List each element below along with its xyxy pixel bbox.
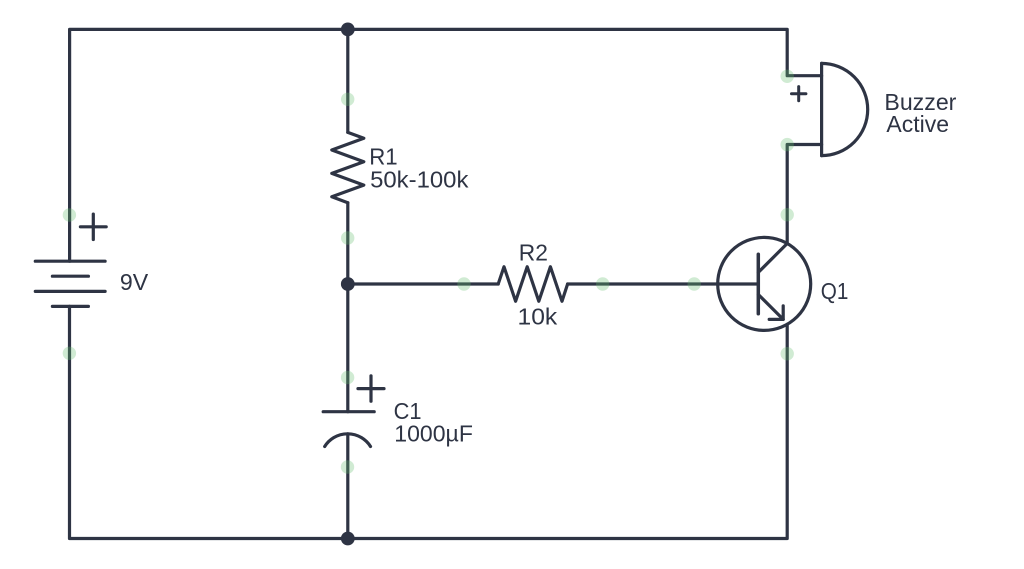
svg-text:50k-100k: 50k-100k	[370, 167, 469, 193]
terminal Q1 collector	[781, 208, 794, 221]
terminal R2 right	[596, 277, 609, 290]
svg-text:R2: R2	[519, 240, 548, 266]
resistor R1	[332, 132, 364, 202]
wire: buzzer - terminal down to Q1 collector	[787, 145, 821, 244]
terminal C1 top	[341, 371, 354, 384]
terminal C1 bottom	[341, 460, 354, 473]
junction node top	[341, 23, 355, 37]
wire: C1 bottom plate to bottom rail	[346, 434, 349, 539]
junction node mid	[341, 277, 355, 291]
battery BT1 plates	[35, 260, 105, 263]
buzzer body flat bar	[820, 63, 823, 155]
battery plus sign	[80, 225, 106, 228]
terminal buzzer +	[781, 70, 794, 83]
terminal battery +	[63, 208, 76, 221]
terminal Q1 base	[688, 277, 701, 290]
wire: mid junction to R2 left	[348, 282, 498, 285]
terminal R2 left	[457, 277, 470, 290]
capacitor plus sign	[358, 387, 384, 390]
terminal R1 bottom	[341, 231, 354, 244]
buzzer plus sign	[792, 92, 806, 95]
wire: top rail from battery + up, across, down to buzzer + terminal	[70, 29, 822, 261]
svg-text:9V: 9V	[120, 269, 149, 295]
transistor Q1 body circle	[718, 237, 811, 330]
terminal battery -	[63, 347, 76, 360]
terminal buzzer -	[781, 138, 794, 151]
wire: middle vertical top to R1	[346, 29, 349, 132]
capacitor C1 curved plate	[325, 434, 371, 447]
buzzer body dome	[822, 63, 868, 155]
capacitor C1 top plate	[323, 410, 374, 413]
svg-text:Q1: Q1	[821, 278, 849, 304]
svg-text:Active: Active	[886, 111, 949, 137]
resistor R2	[498, 267, 567, 301]
terminal R1 top	[341, 93, 354, 106]
wire: R2 right to Q1 base	[568, 282, 759, 285]
wire: R1 bottom through mid junction to C1 top plate	[346, 203, 349, 412]
svg-text:10k: 10k	[518, 304, 558, 330]
wire: battery - down, bottom rail, up right side to Q1 emitter	[70, 306, 788, 538]
terminal Q1 emitter	[781, 347, 794, 360]
transistor Q1 base bar	[757, 254, 761, 313]
transistor Q1 emitter stroke with arrow	[758, 295, 783, 320]
transistor Q1 collector stroke	[758, 244, 787, 273]
junction node bottom	[341, 532, 355, 546]
svg-text:1000µF: 1000µF	[394, 421, 473, 447]
